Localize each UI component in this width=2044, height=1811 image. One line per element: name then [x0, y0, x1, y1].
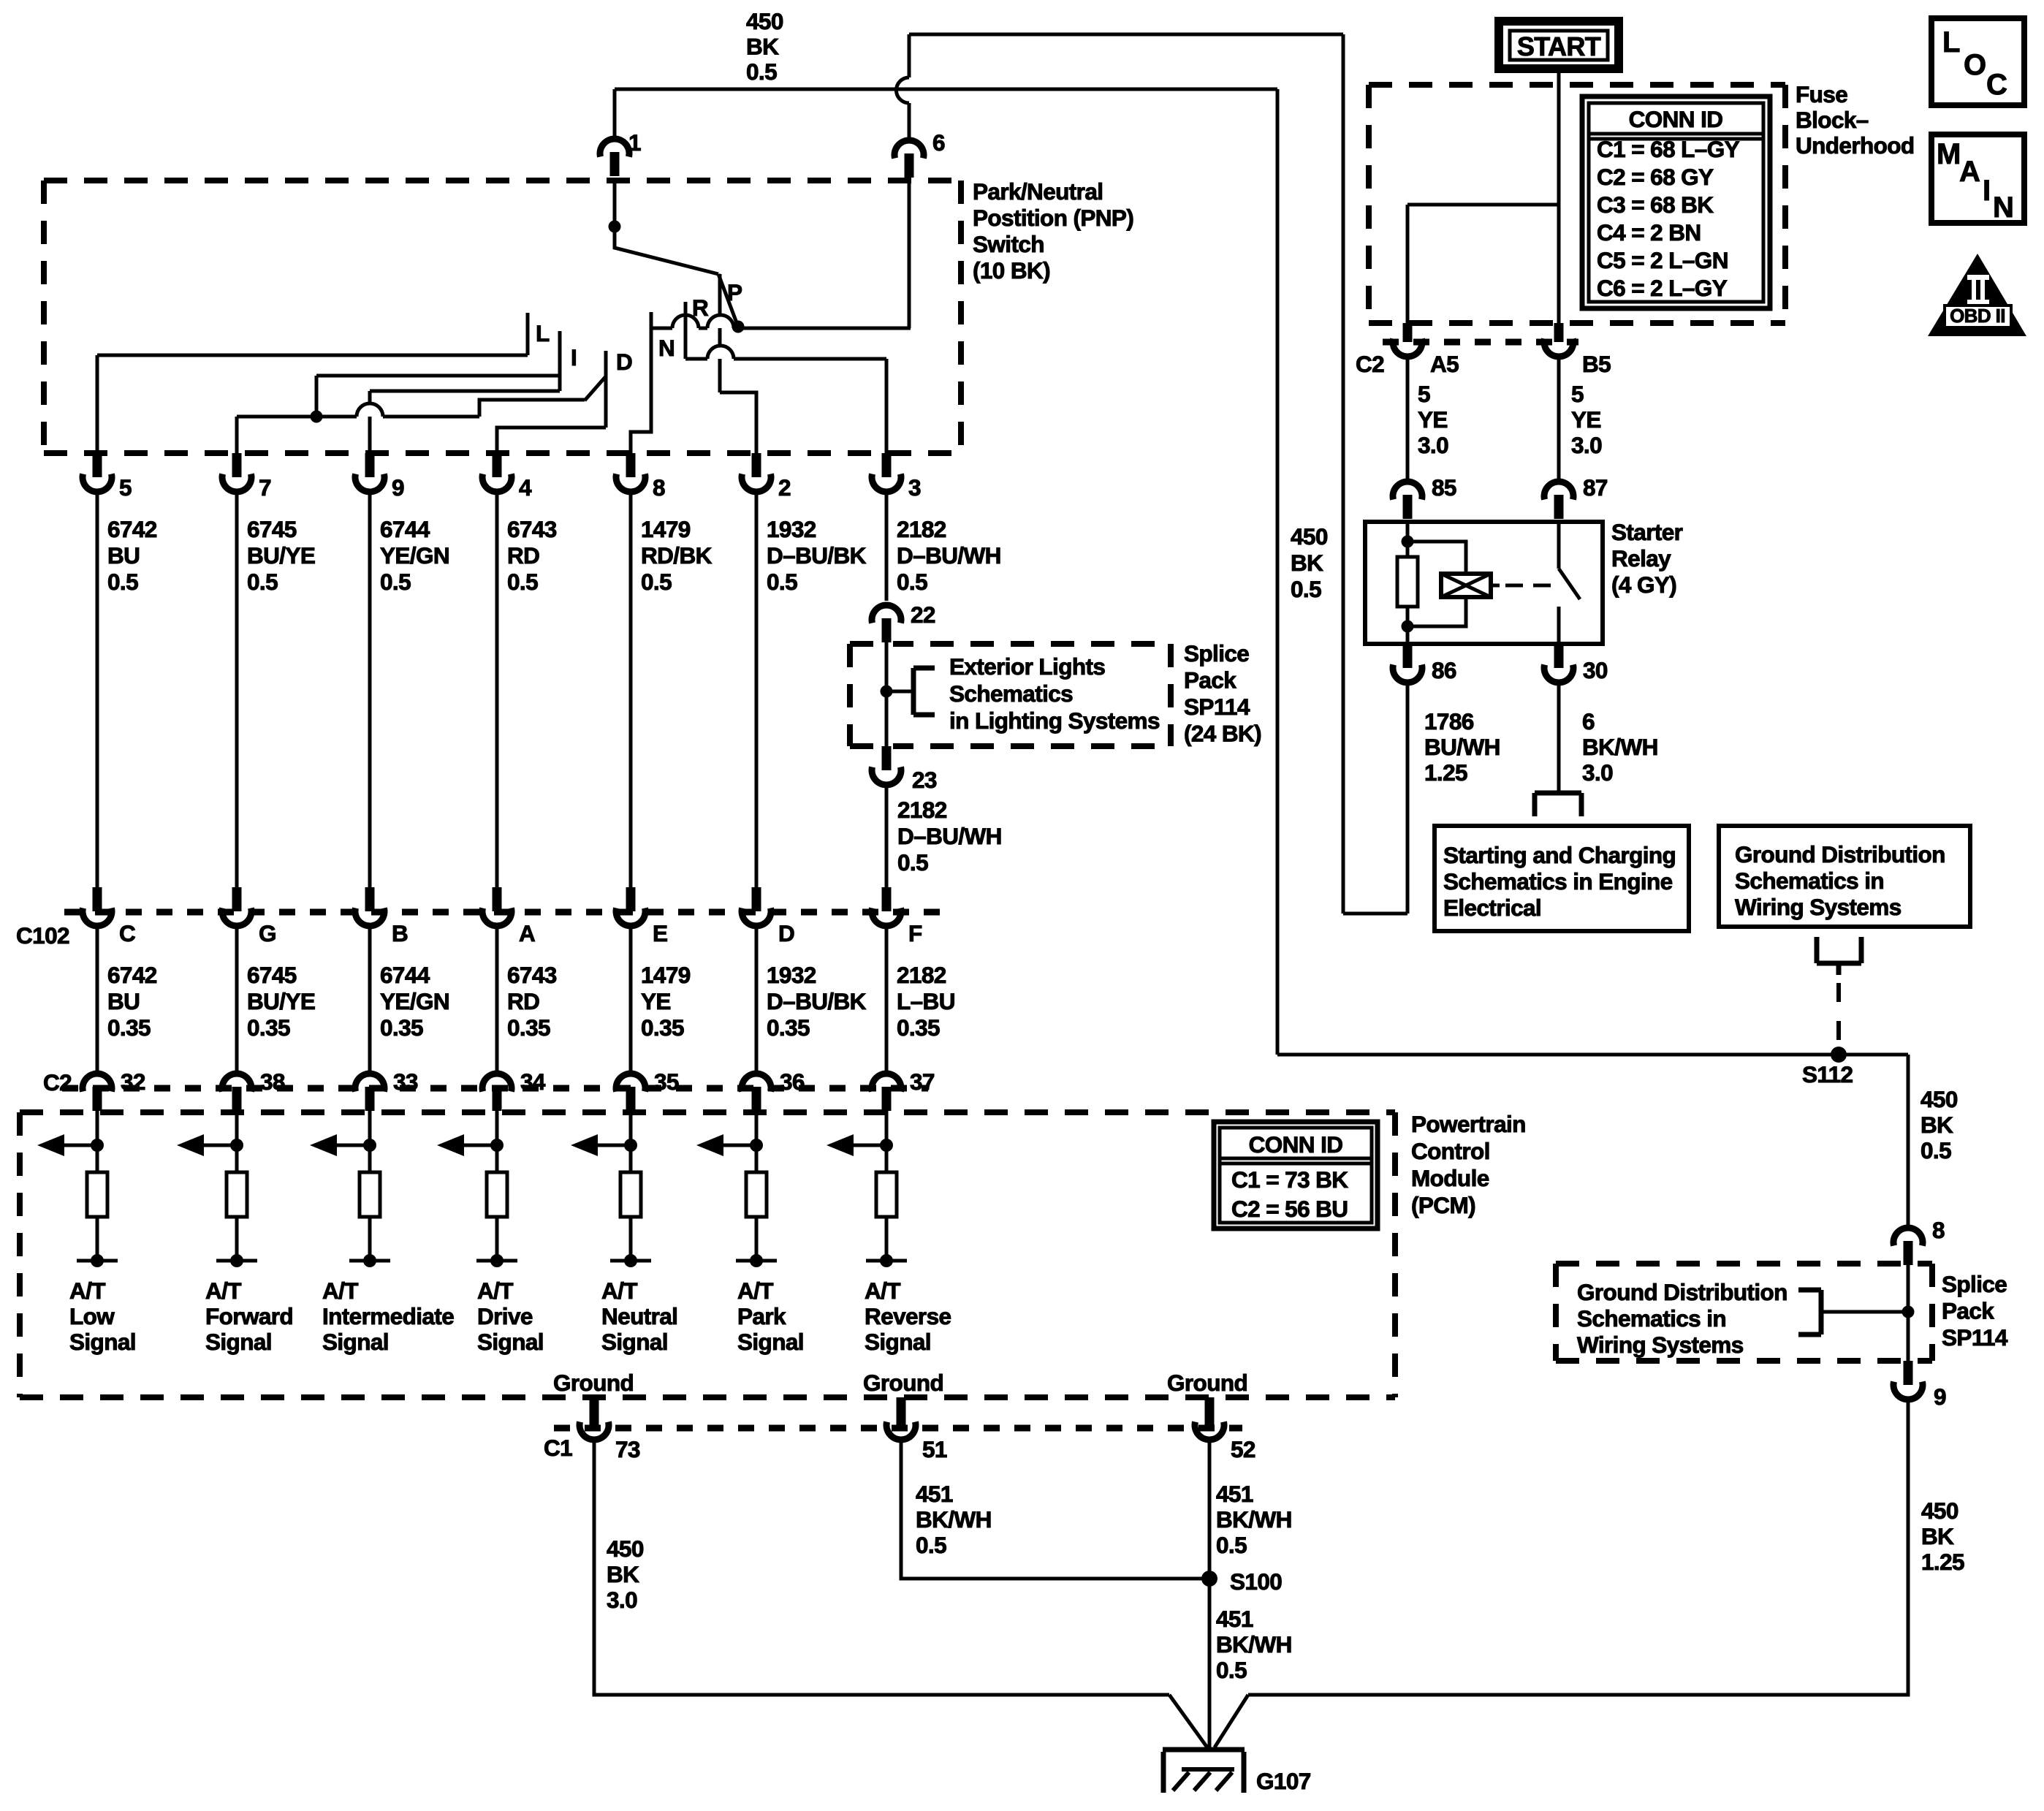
- svg-text:0.5: 0.5: [1216, 1532, 1247, 1558]
- svg-text:BU/YE: BU/YE: [247, 988, 315, 1014]
- svg-text:C2 = 56 BU: C2 = 56 BU: [1231, 1196, 1348, 1222]
- svg-text:5: 5: [1418, 381, 1430, 407]
- svg-text:Splice: Splice: [1184, 640, 1249, 667]
- svg-text:Fuse: Fuse: [1796, 81, 1847, 107]
- svg-text:Signal: Signal: [737, 1329, 804, 1355]
- svg-text:1479: 1479: [641, 962, 691, 988]
- svg-text:S100: S100: [1230, 1568, 1282, 1595]
- svg-text:B: B: [392, 920, 408, 946]
- svg-text:3.0: 3.0: [607, 1587, 637, 1613]
- svg-text:YE: YE: [1571, 406, 1601, 433]
- svg-text:3: 3: [908, 474, 921, 501]
- svg-text:Neutral: Neutral: [601, 1303, 677, 1329]
- svg-text:SP114: SP114: [1942, 1324, 2008, 1351]
- svg-text:P: P: [727, 279, 742, 305]
- svg-text:450: 450: [1291, 523, 1328, 550]
- svg-text:Splice: Splice: [1942, 1271, 2007, 1297]
- svg-text:I: I: [1983, 175, 1991, 207]
- svg-text:B5: B5: [1582, 351, 1611, 377]
- svg-text:C: C: [119, 920, 135, 946]
- svg-text:C4 = 2 BN: C4 = 2 BN: [1597, 219, 1701, 246]
- svg-text:M: M: [1937, 138, 1961, 170]
- svg-text:A/T: A/T: [601, 1277, 637, 1304]
- svg-text:Park: Park: [737, 1303, 786, 1329]
- svg-text:30: 30: [1583, 657, 1608, 683]
- svg-text:0.35: 0.35: [247, 1014, 290, 1041]
- svg-text:Pack: Pack: [1942, 1298, 1994, 1324]
- svg-text:6743: 6743: [507, 516, 557, 542]
- svg-text:Low: Low: [69, 1303, 115, 1329]
- svg-text:A/T: A/T: [69, 1277, 105, 1304]
- svg-text:450: 450: [607, 1535, 644, 1562]
- svg-text:2182: 2182: [897, 516, 946, 542]
- svg-text:35: 35: [654, 1068, 679, 1095]
- svg-text:6744: 6744: [380, 962, 430, 988]
- svg-text:BK: BK: [1921, 1523, 1954, 1549]
- svg-text:D–BU/BK: D–BU/BK: [767, 542, 867, 569]
- svg-text:1786: 1786: [1424, 708, 1474, 734]
- svg-text:6743: 6743: [507, 962, 557, 988]
- svg-text:34: 34: [520, 1068, 546, 1095]
- svg-text:85: 85: [1432, 474, 1456, 501]
- svg-text:D–BU/WH: D–BU/WH: [897, 542, 1001, 569]
- svg-text:YE/GN: YE/GN: [380, 988, 449, 1014]
- svg-text:2182: 2182: [897, 962, 946, 988]
- svg-text:87: 87: [1583, 474, 1608, 501]
- svg-text:0.5: 0.5: [746, 58, 777, 85]
- svg-text:Postition (PNP): Postition (PNP): [973, 205, 1133, 231]
- svg-text:BK/WH: BK/WH: [1216, 1631, 1292, 1658]
- svg-text:C102: C102: [16, 922, 69, 949]
- svg-text:RD: RD: [507, 542, 539, 569]
- svg-text:0.5: 0.5: [107, 569, 138, 595]
- svg-text:(10 BK): (10 BK): [973, 257, 1050, 284]
- svg-text:Schematics: Schematics: [949, 680, 1073, 707]
- svg-text:0.5: 0.5: [767, 569, 797, 595]
- svg-text:8: 8: [1932, 1217, 1945, 1243]
- svg-text:4: 4: [519, 474, 532, 501]
- svg-text:YE/GN: YE/GN: [380, 542, 449, 569]
- svg-text:D: D: [778, 920, 794, 946]
- svg-text:1932: 1932: [767, 516, 816, 542]
- svg-text:S112: S112: [1802, 1061, 1853, 1087]
- svg-text:C2: C2: [43, 1069, 72, 1096]
- svg-text:6: 6: [932, 129, 945, 156]
- svg-text:450: 450: [1921, 1497, 1958, 1524]
- svg-text:Signal: Signal: [477, 1329, 544, 1355]
- svg-text:BU: BU: [107, 988, 140, 1014]
- svg-text:6744: 6744: [380, 516, 430, 542]
- svg-text:L: L: [1942, 26, 1960, 58]
- svg-text:D: D: [616, 349, 632, 375]
- svg-text:BU/YE: BU/YE: [247, 542, 315, 569]
- svg-text:Ground: Ground: [553, 1370, 634, 1396]
- svg-text:23: 23: [912, 767, 937, 793]
- svg-text:32: 32: [121, 1068, 145, 1095]
- svg-text:OBD II: OBD II: [1950, 305, 2005, 327]
- svg-text:51: 51: [922, 1436, 947, 1462]
- svg-text:Powertrain: Powertrain: [1411, 1111, 1526, 1137]
- svg-text:0.5: 0.5: [247, 569, 278, 595]
- svg-text:O: O: [1964, 49, 1986, 81]
- svg-text:38: 38: [260, 1068, 285, 1095]
- svg-text:F: F: [908, 920, 922, 946]
- svg-text:D–BU/WH: D–BU/WH: [897, 823, 1002, 849]
- svg-text:Ground Distribution: Ground Distribution: [1735, 841, 1945, 867]
- svg-text:1932: 1932: [767, 962, 816, 988]
- svg-text:C2: C2: [1356, 351, 1384, 377]
- svg-text:Signal: Signal: [69, 1329, 136, 1355]
- svg-text:A/T: A/T: [322, 1277, 358, 1304]
- svg-text:BK/WH: BK/WH: [916, 1506, 992, 1533]
- svg-text:BK: BK: [746, 34, 779, 60]
- svg-text:N: N: [1993, 191, 2013, 224]
- svg-text:6745: 6745: [247, 516, 297, 542]
- svg-text:6: 6: [1582, 708, 1595, 734]
- svg-text:0.5: 0.5: [897, 569, 927, 595]
- svg-text:START: START: [1517, 31, 1601, 61]
- svg-text:3.0: 3.0: [1571, 432, 1602, 458]
- svg-text:Control: Control: [1411, 1138, 1490, 1164]
- svg-text:5: 5: [119, 474, 132, 501]
- svg-text:(4 GY): (4 GY): [1611, 572, 1676, 598]
- svg-text:Underhood: Underhood: [1796, 132, 1915, 159]
- svg-text:Pack: Pack: [1184, 667, 1236, 694]
- svg-text:Relay: Relay: [1611, 545, 1671, 572]
- svg-text:37: 37: [910, 1068, 935, 1095]
- svg-text:Ground Distribution: Ground Distribution: [1577, 1279, 1787, 1305]
- svg-text:N: N: [658, 335, 675, 361]
- svg-text:9: 9: [392, 474, 404, 501]
- svg-text:450: 450: [1920, 1086, 1958, 1112]
- svg-text:6742: 6742: [107, 962, 157, 988]
- svg-text:C1 = 68 L–GY: C1 = 68 L–GY: [1597, 136, 1740, 162]
- svg-text:0.35: 0.35: [380, 1014, 423, 1041]
- svg-text:Module: Module: [1411, 1165, 1489, 1191]
- svg-text:C1 = 73 BK: C1 = 73 BK: [1231, 1166, 1348, 1193]
- svg-text:(24 BK): (24 BK): [1184, 721, 1261, 747]
- svg-text:Signal: Signal: [205, 1329, 272, 1355]
- svg-text:(PCM): (PCM): [1411, 1192, 1475, 1218]
- svg-text:52: 52: [1231, 1436, 1255, 1462]
- svg-text:BK/WH: BK/WH: [1582, 734, 1658, 760]
- svg-text:0.5: 0.5: [1920, 1137, 1951, 1163]
- svg-text:2182: 2182: [897, 797, 947, 823]
- svg-text:3.0: 3.0: [1418, 432, 1448, 458]
- svg-text:CONN ID: CONN ID: [1629, 106, 1723, 132]
- svg-text:0.35: 0.35: [507, 1014, 550, 1041]
- svg-text:0.5: 0.5: [507, 569, 538, 595]
- svg-text:G107: G107: [1256, 1768, 1311, 1794]
- svg-text:A/T: A/T: [205, 1277, 241, 1304]
- svg-text:0.5: 0.5: [897, 849, 928, 876]
- svg-text:BK: BK: [1291, 550, 1323, 576]
- svg-text:451: 451: [916, 1481, 953, 1507]
- svg-text:Intermediate: Intermediate: [322, 1303, 454, 1329]
- svg-text:C: C: [1986, 69, 2007, 101]
- svg-text:Block–: Block–: [1796, 107, 1869, 133]
- svg-text:BU/WH: BU/WH: [1424, 734, 1500, 760]
- svg-text:33: 33: [393, 1068, 418, 1095]
- svg-text:YE: YE: [1418, 406, 1448, 433]
- svg-text:C5 = 2 L–GN: C5 = 2 L–GN: [1597, 247, 1728, 273]
- svg-text:Drive: Drive: [477, 1303, 533, 1329]
- svg-text:451: 451: [1216, 1606, 1253, 1632]
- svg-text:Ground: Ground: [863, 1370, 943, 1396]
- svg-text:A5: A5: [1430, 351, 1459, 377]
- svg-text:A/T: A/T: [737, 1277, 773, 1304]
- svg-text:8: 8: [653, 474, 665, 501]
- svg-text:0.35: 0.35: [641, 1014, 684, 1041]
- svg-text:Signal: Signal: [865, 1329, 931, 1355]
- svg-text:5: 5: [1571, 381, 1584, 407]
- svg-text:in Lighting Systems: in Lighting Systems: [949, 707, 1160, 734]
- svg-text:73: 73: [615, 1436, 640, 1462]
- svg-text:L–BU: L–BU: [897, 988, 955, 1014]
- svg-text:0.5: 0.5: [1216, 1657, 1247, 1683]
- svg-text:C3 = 68 BK: C3 = 68 BK: [1597, 191, 1714, 218]
- svg-text:Ground: Ground: [1167, 1370, 1247, 1396]
- svg-text:BK/WH: BK/WH: [1216, 1506, 1292, 1533]
- svg-text:Schematics in: Schematics in: [1577, 1305, 1726, 1332]
- svg-text:22: 22: [911, 601, 935, 628]
- svg-text:RD/BK: RD/BK: [641, 542, 713, 569]
- svg-text:7: 7: [259, 474, 271, 501]
- svg-text:RD: RD: [507, 988, 539, 1014]
- svg-text:A: A: [519, 920, 535, 946]
- svg-text:6745: 6745: [247, 962, 297, 988]
- svg-text:A/T: A/T: [865, 1277, 900, 1304]
- svg-text:Signal: Signal: [601, 1329, 668, 1355]
- svg-text:BK: BK: [607, 1561, 639, 1587]
- svg-text:86: 86: [1432, 657, 1456, 683]
- svg-text:1: 1: [628, 129, 641, 156]
- svg-text:Electrical: Electrical: [1443, 895, 1541, 921]
- svg-text:Schematics in: Schematics in: [1735, 867, 1884, 894]
- svg-text:C1: C1: [544, 1435, 572, 1461]
- svg-text:Park/Neutral: Park/Neutral: [973, 178, 1103, 205]
- svg-text:6742: 6742: [107, 516, 157, 542]
- svg-text:BK: BK: [1920, 1112, 1953, 1138]
- svg-text:YE: YE: [641, 988, 671, 1014]
- svg-text:1479: 1479: [641, 516, 691, 542]
- svg-text:0.5: 0.5: [641, 569, 672, 595]
- svg-text:Starter: Starter: [1611, 519, 1683, 545]
- svg-text:0.35: 0.35: [897, 1014, 940, 1041]
- svg-text:0.5: 0.5: [916, 1532, 946, 1558]
- svg-text:C6 = 2 L–GY: C6 = 2 L–GY: [1597, 275, 1728, 301]
- svg-text:R: R: [692, 295, 709, 321]
- svg-text:I: I: [571, 344, 577, 371]
- svg-text:Signal: Signal: [322, 1329, 389, 1355]
- svg-text:0.5: 0.5: [380, 569, 411, 595]
- svg-text:Exterior Lights: Exterior Lights: [949, 653, 1105, 680]
- svg-text:Wiring Systems: Wiring Systems: [1735, 894, 1901, 920]
- svg-text:450: 450: [746, 8, 783, 34]
- svg-text:G: G: [259, 920, 276, 946]
- svg-text:451: 451: [1216, 1481, 1253, 1507]
- svg-text:Reverse: Reverse: [865, 1303, 951, 1329]
- svg-text:2: 2: [778, 474, 791, 501]
- svg-text:3.0: 3.0: [1582, 759, 1613, 786]
- svg-text:E: E: [653, 920, 667, 946]
- svg-text:0.35: 0.35: [767, 1014, 810, 1041]
- svg-text:1.25: 1.25: [1921, 1549, 1964, 1575]
- svg-text:Schematics in Engine: Schematics in Engine: [1443, 868, 1673, 895]
- svg-text:36: 36: [780, 1068, 805, 1095]
- svg-text:Wiring Systems: Wiring Systems: [1577, 1332, 1744, 1358]
- svg-text:D–BU/BK: D–BU/BK: [767, 988, 867, 1014]
- svg-text:0.5: 0.5: [1291, 576, 1321, 602]
- svg-text:CONN ID: CONN ID: [1249, 1131, 1343, 1158]
- svg-text:0.35: 0.35: [107, 1014, 151, 1041]
- svg-text:9: 9: [1934, 1383, 1946, 1410]
- svg-text:SP114: SP114: [1184, 694, 1250, 720]
- svg-text:L: L: [536, 320, 550, 346]
- svg-text:C2 = 68 GY: C2 = 68 GY: [1597, 164, 1714, 190]
- svg-text:Starting and Charging: Starting and Charging: [1443, 842, 1676, 868]
- svg-text:A/T: A/T: [477, 1277, 513, 1304]
- svg-text:1.25: 1.25: [1424, 759, 1467, 786]
- svg-text:Forward: Forward: [205, 1303, 293, 1329]
- svg-text:Switch: Switch: [973, 231, 1044, 257]
- svg-text:BU: BU: [107, 542, 140, 569]
- svg-text:A: A: [1959, 156, 1980, 188]
